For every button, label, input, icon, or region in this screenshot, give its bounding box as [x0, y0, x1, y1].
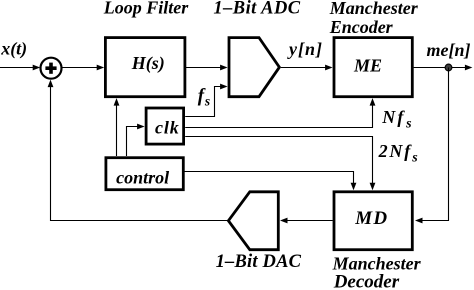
clk box: [146, 108, 184, 144]
svg-text:Manchester: Manchester: [332, 253, 422, 273]
svg-text:MD: MD: [354, 208, 388, 229]
svg-text:Decoder: Decoder: [333, 271, 400, 290]
Manchester encoder box ME: [334, 38, 412, 97]
svg-text:clk: clk: [155, 117, 180, 137]
1-bit DAC pentagon: [228, 192, 278, 250]
svg-text:Manchester: Manchester: [329, 0, 419, 18]
wire summer to H(s): [62, 65, 104, 71]
svg-text:H(s): H(s): [131, 53, 165, 74]
wire control to MD: [184, 172, 357, 191]
loop filter box H(s): [105, 38, 184, 97]
label Manchester Decoder: [332, 253, 422, 290]
wire DAC feedback to summer: [48, 80, 228, 221]
svg-text:1–Bit DAC: 1–Bit DAC: [216, 252, 302, 272]
svg-text:me[n]: me[n]: [427, 40, 471, 60]
wire clk 2Nfs to MD: [185, 137, 375, 191]
control box: [106, 158, 183, 190]
wire clk fs to ADC: [185, 84, 227, 117]
label Manchester Encoder: [329, 0, 419, 37]
svg-text:Loop Filter: Loop Filter: [103, 0, 189, 18]
wire ME to output me[n]: [414, 65, 473, 71]
svg-text:x(t): x(t): [0, 38, 27, 59]
svg-text:control: control: [116, 167, 169, 187]
wire control to clk: [127, 124, 145, 156]
wire control to H(s): [114, 98, 120, 156]
summing junction: [41, 58, 62, 79]
1-bit ADC pentagon: [229, 38, 279, 97]
Manchester decoder box MD: [334, 192, 412, 250]
svg-text:y[n]: y[n]: [287, 39, 323, 59]
svg-text:Encoder: Encoder: [329, 17, 394, 37]
wire MD to DAC: [280, 218, 333, 224]
wire ADC to ME, node y[n]: [281, 65, 333, 71]
svg-text:ME: ME: [353, 56, 382, 76]
wire me[n] node down to MD: [415, 68, 449, 224]
svg-text:1–Bit ADC: 1–Bit ADC: [213, 0, 300, 19]
wire x(t) input to summer: [0, 65, 40, 71]
wire H(s) to ADC: [186, 65, 228, 71]
wire clk Nfs to ME: [185, 98, 375, 127]
node me[n] junction dot: [445, 64, 452, 71]
